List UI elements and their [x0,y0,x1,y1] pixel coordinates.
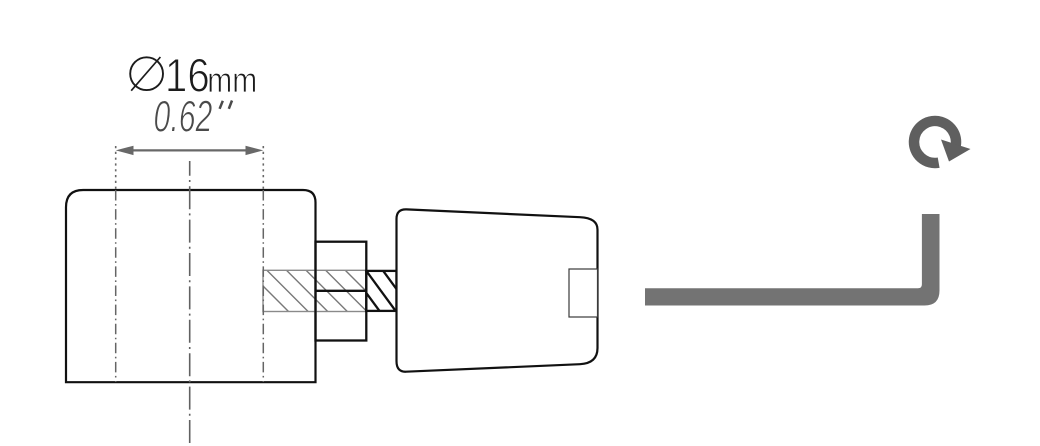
center line left [115,190,117,382]
threaded shaft gray section [243,266,411,316]
center line right [262,190,264,382]
shaft mid line [315,290,366,292]
extension line left [115,146,117,190]
dimension arrow [116,146,264,155]
hub [316,242,367,341]
allen key [645,214,940,306]
svg-text:0.62: 0.62 [154,93,213,142]
knob handle [397,209,598,371]
diameter symbol [130,57,163,91]
body of knob base [66,190,316,382]
extension line right [262,146,264,190]
svg-text:mm: mm [207,59,257,99]
double prime [220,101,232,109]
rotation arrow [914,121,970,163]
exposed shaft black section [364,269,398,315]
socket recess [569,269,598,317]
main axis line [189,161,191,443]
